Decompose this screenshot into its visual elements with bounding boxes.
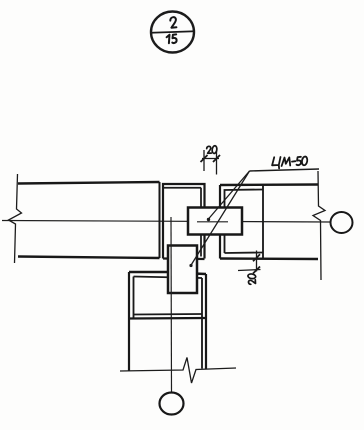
leader dot on horizontal plate	[207, 218, 210, 221]
leader line to vertical plate	[191, 171, 250, 266]
axis dash over horizontal plate	[197, 221, 228, 223]
digits 20 right (rotated)	[248, 273, 256, 284]
break line at left panel cut	[9, 174, 22, 263]
wall axis centerline vertical	[170, 217, 173, 392]
axis circle bottom	[160, 393, 184, 415]
break line at lower panel cut	[120, 358, 236, 384]
label CM-50	[272, 156, 308, 168]
joint plate CM-50 horizontal	[188, 208, 242, 235]
node detail callout circle 2/15	[151, 12, 195, 53]
hyphen	[292, 160, 295, 162]
digit 5	[297, 157, 302, 165]
wall axis centerline horizontal	[2, 221, 331, 223]
letter M	[282, 157, 291, 166]
joint plate CM-50 vertical	[168, 246, 197, 294]
digit 0	[301, 156, 308, 166]
dimension 20 right gap	[238, 251, 261, 285]
axis circle right	[331, 212, 353, 233]
leader dot on vertical plate	[189, 264, 192, 267]
stem panel (vertical wall end between panels)	[163, 184, 205, 259]
digit 15 in callout	[167, 35, 170, 44]
right wall panel	[220, 185, 318, 260]
letter Ts	[272, 157, 280, 168]
digit 2 in callout	[170, 17, 176, 28]
leader shelf under label	[250, 169, 320, 171]
dimension 20 top gap	[201, 145, 221, 174]
left wall panel	[18, 182, 160, 258]
leader line to horizontal plate	[208, 171, 250, 220]
lower vertical wall panel	[129, 272, 206, 371]
digits 20 top	[207, 145, 218, 153]
break line at right panel cut	[313, 171, 325, 280]
